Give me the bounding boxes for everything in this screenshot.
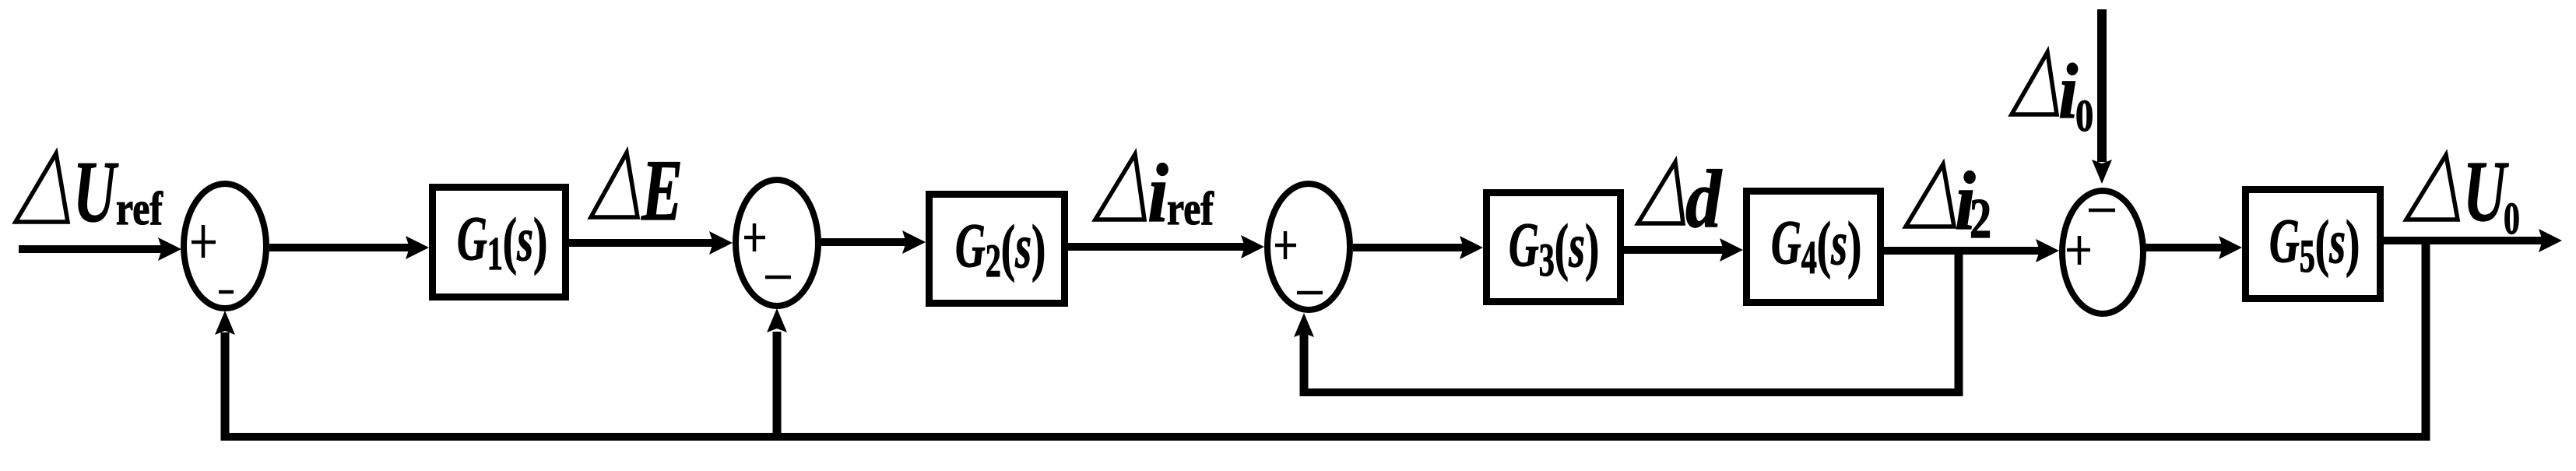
block G1 <box>433 188 566 297</box>
arrowhead into G4 <box>1720 238 1743 262</box>
wire S4 to G5 <box>2143 244 2223 251</box>
wire inner feedback bottom <box>1300 388 1963 396</box>
svg-text:ref: ref <box>116 183 163 234</box>
svg-text:0: 0 <box>2075 91 2093 141</box>
label ΔU0 <box>2406 143 2520 244</box>
wire S1 to G1 <box>269 244 410 251</box>
plus sign S3 <box>1275 231 1296 259</box>
svg-text:d: d <box>1685 153 1722 244</box>
label ΔE <box>591 142 683 240</box>
minus sign S1 <box>219 290 234 294</box>
svg-text:G3(s): G3(s) <box>1509 209 1599 286</box>
minus sign S2 <box>765 276 791 279</box>
arrowhead into G5 <box>2219 236 2242 259</box>
wire G3 to G4 <box>1624 246 1724 254</box>
block G4 <box>1747 192 1881 303</box>
arrowhead into S2 bottom <box>767 308 787 332</box>
arrowhead into G1 <box>406 236 429 259</box>
wire S3 to G3 <box>1353 244 1464 251</box>
wire outer feedback rise to S1 <box>221 332 230 441</box>
block G5 <box>2246 190 2381 299</box>
label Δi_ref <box>1095 147 1214 240</box>
wire G1 to S2 <box>569 239 714 247</box>
wire S2 to G2 <box>821 238 907 246</box>
arrowhead into S3 bottom <box>1294 313 1314 337</box>
arrowhead into S1 bottom <box>215 311 235 335</box>
label Δi2 <box>1906 155 1991 250</box>
summing junction S2 <box>736 180 818 306</box>
svg-text:G2(s): G2(s) <box>955 210 1046 287</box>
svg-text:0: 0 <box>2504 193 2520 243</box>
wire branch down from node T1 <box>1955 251 1963 392</box>
svg-text:2: 2 <box>1970 188 1991 251</box>
wire G4 to S4 <box>1884 247 2040 255</box>
summing junction S1 <box>184 184 266 308</box>
minus sign S3 <box>1297 291 1323 295</box>
svg-text:G1(s): G1(s) <box>457 203 547 280</box>
svg-text:G4(s): G4(s) <box>1771 207 1861 284</box>
summing junction S4 <box>2062 191 2143 314</box>
wire branch down at node T2 <box>2422 241 2430 437</box>
label ΔU_ref <box>16 144 163 241</box>
svg-text:i: i <box>1147 147 1169 240</box>
arrowhead into G3 <box>1460 236 1483 259</box>
label Δi0 <box>2012 47 2093 142</box>
wire outer feedback bottom <box>221 433 2430 441</box>
minus sign S4 <box>2089 209 2115 213</box>
svg-text:G5(s): G5(s) <box>2269 206 2360 283</box>
svg-text:E: E <box>641 142 683 240</box>
arrowhead into S4 top <box>2092 160 2112 184</box>
wire output <box>2384 237 2543 244</box>
svg-text:U: U <box>73 144 119 241</box>
svg-text:ref: ref <box>1167 183 1214 234</box>
wire feedback rise to S2 <box>773 332 782 437</box>
wire inner feedback rise <box>1300 333 1309 396</box>
arrowhead into S3 <box>1241 235 1264 258</box>
arrowhead output <box>2539 229 2562 252</box>
arrowhead into S2 <box>709 231 733 255</box>
wire G2 to S3 <box>1068 243 1246 251</box>
plus sign S1 <box>192 225 216 258</box>
plus sign S2 <box>744 223 765 251</box>
plus sign S4 <box>2067 236 2090 265</box>
arrowhead into S4 <box>2036 239 2059 262</box>
svg-text:U: U <box>2463 143 2509 239</box>
block G3 <box>1487 193 1621 302</box>
wire Δi0 input <box>2097 9 2107 162</box>
block G2 <box>930 195 1065 304</box>
arrowhead into G2 <box>902 230 926 254</box>
wire input <box>19 245 163 253</box>
label Δd <box>1638 153 1722 244</box>
arrowhead into summing junction S1 <box>158 237 181 261</box>
summing junction S3 <box>1267 184 1350 310</box>
